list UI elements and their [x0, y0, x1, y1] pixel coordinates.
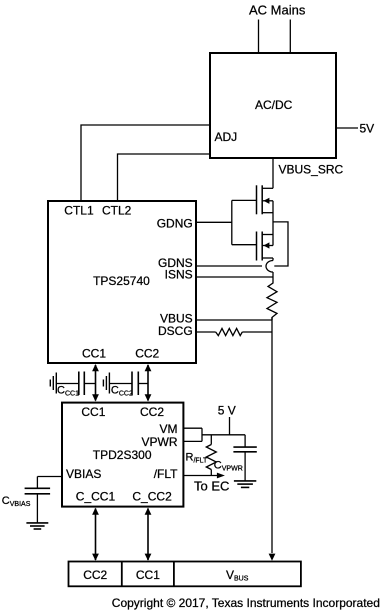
svg-text:CVPWR: CVPWR: [214, 460, 243, 473]
svg-text:To EC: To EC: [194, 479, 229, 494]
svg-text:VBUS_SRC: VBUS_SRC: [279, 163, 344, 177]
svg-text:CC1: CC1: [82, 346, 106, 360]
svg-text:VM: VM: [160, 422, 178, 436]
svg-text:CVBIAS: CVBIAS: [2, 495, 31, 508]
svg-text:ADJ: ADJ: [215, 130, 238, 144]
svg-text:VBUS: VBUS: [226, 568, 249, 583]
svg-text:ISNS: ISNS: [165, 267, 193, 281]
svg-text:DSCG: DSCG: [158, 324, 193, 338]
svg-text:TPD2S300: TPD2S300: [93, 448, 152, 462]
svg-text:TPS25740: TPS25740: [93, 274, 150, 288]
svg-text:R/FLT: R/FLT: [186, 451, 209, 464]
svg-text:AC Mains: AC Mains: [249, 2, 306, 17]
svg-text:/FLT: /FLT: [154, 467, 178, 481]
svg-text:VBIAS: VBIAS: [66, 467, 101, 481]
svg-text:CC2: CC2: [83, 568, 107, 582]
svg-text:CC1: CC1: [81, 405, 105, 419]
svg-text:C_CC1: C_CC1: [76, 490, 116, 504]
svg-text:AC/DC: AC/DC: [255, 98, 293, 112]
svg-text:CC1: CC1: [136, 568, 160, 582]
svg-text:Copyright © 2017, Texas Instru: Copyright © 2017, Texas Instruments Inco…: [112, 596, 380, 610]
svg-text:CTL2: CTL2: [102, 203, 132, 217]
svg-text:GDNG: GDNG: [157, 216, 193, 230]
svg-text:CC2: CC2: [135, 346, 159, 360]
svg-text:CC2: CC2: [140, 405, 164, 419]
svg-text:CTL1: CTL1: [64, 203, 94, 217]
svg-text:VPWR: VPWR: [142, 435, 178, 449]
svg-text:5 V: 5 V: [218, 404, 236, 418]
svg-text:CCC1: CCC1: [57, 385, 79, 398]
svg-text:CCC2: CCC2: [111, 385, 133, 398]
svg-text:5V: 5V: [360, 122, 375, 136]
svg-text:C_CC2: C_CC2: [132, 490, 172, 504]
